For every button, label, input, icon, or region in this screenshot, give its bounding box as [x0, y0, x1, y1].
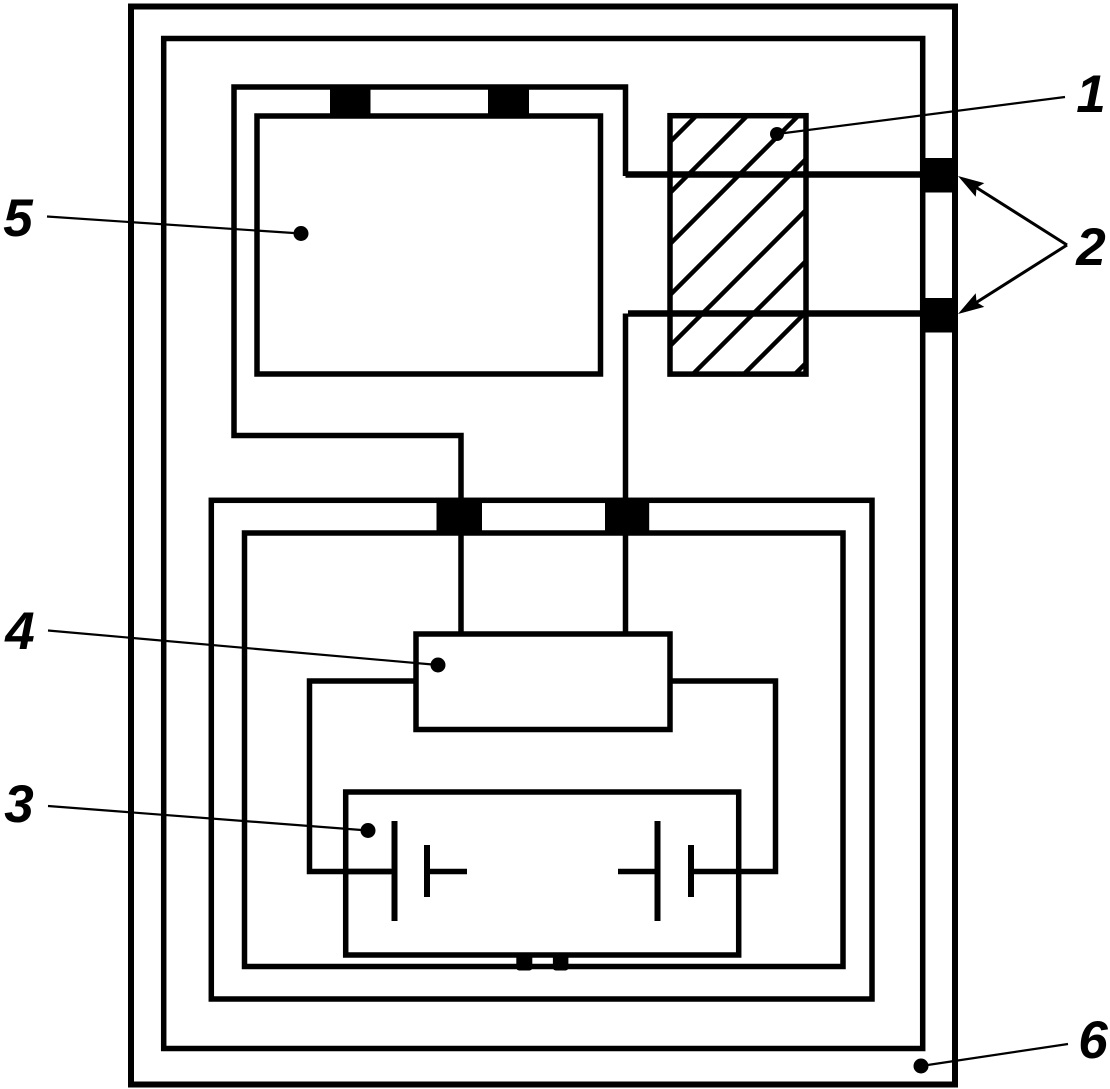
battery cell right short plate [688, 845, 694, 897]
wire into pad A down to component 4 [458, 531, 464, 634]
leader line label 3 [48, 806, 376, 838]
assembly pad A [437, 498, 483, 533]
arrow to contact 2b [958, 245, 1067, 314]
wire component 4 right to battery [670, 681, 776, 872]
wire upper to contact 2a [626, 171, 923, 178]
component 4 [416, 634, 670, 730]
svg-text:3: 3 [4, 775, 33, 834]
wire into pad B down to component 4 [623, 531, 629, 634]
wire lower to contact 2b [628, 310, 922, 317]
wire from lower wire down to assembly pad [623, 314, 629, 506]
inner case frame [164, 39, 923, 1049]
contact 2a [922, 158, 958, 193]
contact 2b [922, 298, 958, 333]
svg-text:5: 5 [3, 189, 34, 248]
assembly outer shell [211, 500, 872, 999]
svg-text:1: 1 [1076, 65, 1105, 124]
battery cell right long plate [655, 821, 661, 921]
pad on block 5 (right) [488, 85, 529, 119]
wire loop around block 5 [234, 87, 626, 505]
battery box 3 [346, 792, 739, 955]
assembly pad B [605, 498, 649, 533]
leader line label 1 [770, 97, 1065, 141]
battery cell right stub wire [618, 869, 658, 875]
hatched component 1 [670, 116, 806, 374]
leader line label 5 [47, 217, 309, 242]
block U5 [257, 116, 601, 374]
battery wire into left long plate [348, 869, 394, 875]
svg-text:4: 4 [4, 602, 34, 661]
pad on block 5 (left) [330, 85, 371, 119]
battery cell left short plate [424, 845, 430, 897]
leader line label 4 [48, 631, 446, 673]
svg-text:6: 6 [1078, 1011, 1108, 1070]
battery cell left stub wire [427, 869, 467, 875]
battery bottom contact pad left [516, 954, 532, 971]
outer case frame 6 [131, 7, 955, 1085]
wire component 4 left to battery [310, 681, 417, 872]
arrow to contact 2a [958, 176, 1067, 245]
svg-text:2: 2 [1075, 218, 1105, 277]
leader line label 6 [914, 1044, 1069, 1074]
battery bottom contact pad right [553, 954, 569, 971]
assembly inner shell [245, 533, 844, 967]
battery cell left long plate [392, 821, 398, 921]
